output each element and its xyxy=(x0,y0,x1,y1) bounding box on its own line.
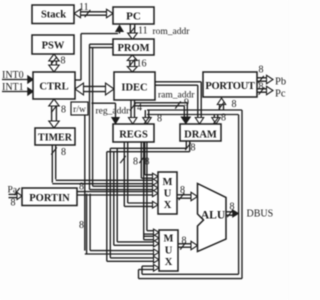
svg-text:rom_addr: rom_addr xyxy=(153,27,191,37)
svg-text:U: U xyxy=(165,246,173,257)
svg-text:REGS: REGS xyxy=(119,130,148,141)
svg-text:PROM: PROM xyxy=(117,43,149,54)
svg-text:16: 16 xyxy=(137,59,147,70)
svg-text:11: 11 xyxy=(79,2,89,13)
svg-text:M: M xyxy=(163,177,173,188)
svg-text:TIMER: TIMER xyxy=(38,133,73,144)
svg-text:ALU: ALU xyxy=(201,210,226,222)
svg-text:X: X xyxy=(164,200,172,211)
svg-text:INT0: INT0 xyxy=(2,70,24,81)
svg-text:8: 8 xyxy=(259,65,264,76)
svg-text:11: 11 xyxy=(138,26,148,37)
svg-text:r/w: r/w xyxy=(73,105,86,115)
svg-text:8: 8 xyxy=(145,157,150,168)
svg-text:U: U xyxy=(164,189,172,200)
svg-text:8: 8 xyxy=(221,113,226,124)
svg-text:DRAM: DRAM xyxy=(184,130,217,141)
svg-text:ram_addr: ram_addr xyxy=(158,91,195,101)
svg-text:8: 8 xyxy=(232,99,237,110)
svg-text:Pc: Pc xyxy=(275,89,286,100)
svg-text:8: 8 xyxy=(61,147,66,158)
svg-text:8: 8 xyxy=(157,114,162,125)
svg-text:X: X xyxy=(165,257,173,268)
svg-text:8: 8 xyxy=(61,56,66,67)
svg-text:Pa: Pa xyxy=(8,186,18,196)
svg-text:8: 8 xyxy=(61,105,66,116)
svg-text:8: 8 xyxy=(79,182,84,193)
svg-text:PC: PC xyxy=(126,11,141,23)
svg-text:PSW: PSW xyxy=(42,41,65,52)
svg-text:CTRL: CTRL xyxy=(39,82,68,93)
svg-text:PORTIN: PORTIN xyxy=(29,193,70,204)
svg-text:INT1: INT1 xyxy=(2,82,24,93)
svg-text:4: 4 xyxy=(137,103,142,114)
svg-text:M: M xyxy=(164,234,174,245)
svg-text:DBUS: DBUS xyxy=(247,209,274,220)
svg-text:8: 8 xyxy=(79,220,84,231)
svg-text:reg_addr: reg_addr xyxy=(96,107,131,117)
svg-text:9: 9 xyxy=(184,98,189,109)
svg-text:8: 8 xyxy=(133,157,138,168)
svg-text:8: 8 xyxy=(191,143,196,154)
svg-text:Pb: Pb xyxy=(275,77,286,88)
svg-text:Stack: Stack xyxy=(41,10,66,21)
svg-text:IDEC: IDEC xyxy=(121,83,147,94)
svg-text:8: 8 xyxy=(11,198,16,209)
svg-text:PORTOUT: PORTOUT xyxy=(205,81,255,92)
